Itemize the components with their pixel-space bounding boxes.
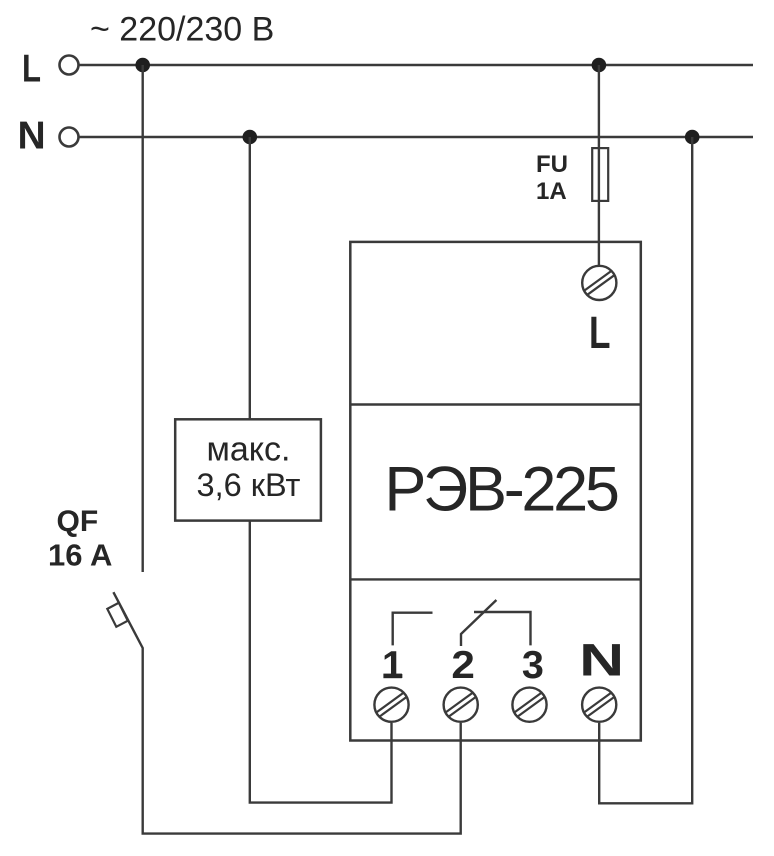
svg-text:L: L xyxy=(589,307,611,358)
relay contact: common blade from terminal 2 xyxy=(461,600,496,646)
node junction on N line (to load box) xyxy=(243,130,258,145)
svg-text:N: N xyxy=(18,115,46,158)
screw terminal 2 xyxy=(444,688,478,722)
svg-text:РЭВ-225: РЭВ-225 xyxy=(384,455,618,525)
node junction on L line (to fuse FU) xyxy=(592,58,607,73)
node junction on L line (to QF) xyxy=(135,58,150,73)
svg-text:~ 220/230 В: ~ 220/230 В xyxy=(90,11,274,49)
wire from N line down to load box xyxy=(249,137,251,419)
device divider upper xyxy=(350,403,641,405)
svg-text:16 A: 16 A xyxy=(48,538,112,573)
breaker QF blade and wire to terminal 2 xyxy=(113,592,460,833)
relay contact: bracket to terminal 3 xyxy=(474,612,531,645)
svg-text:N: N xyxy=(579,634,624,685)
device body РЭВ-225 xyxy=(350,242,641,741)
wire L line xyxy=(79,64,753,66)
device divider lower xyxy=(350,578,641,580)
wire from L line through fuse to terminal L xyxy=(598,65,600,265)
svg-text:QF: QF xyxy=(57,505,99,538)
screw terminal L on device xyxy=(582,266,616,300)
wire N line xyxy=(79,136,753,138)
svg-text:1A: 1A xyxy=(536,178,567,205)
relay contact: bracket from terminal 1 xyxy=(393,613,433,646)
svg-text:2: 2 xyxy=(451,644,475,687)
load box макс. 3,6 кВт xyxy=(175,419,321,520)
fuse FU 1A xyxy=(592,148,608,201)
svg-text:3: 3 xyxy=(522,644,544,687)
terminal circle L input xyxy=(60,56,79,75)
breaker QF square xyxy=(107,603,128,627)
terminal circle N input xyxy=(60,128,79,147)
svg-text:FU: FU xyxy=(536,151,568,178)
svg-text:макс.: макс. xyxy=(207,431,291,469)
screw terminal N xyxy=(582,688,616,722)
wire from load box down to terminal 1 xyxy=(250,521,392,803)
svg-text:3,6 кВт: 3,6 кВт xyxy=(197,467,301,503)
svg-text:L: L xyxy=(22,47,41,90)
screw terminal 1 xyxy=(374,688,408,722)
wire from N line down and to terminal N xyxy=(599,137,692,803)
svg-text:1: 1 xyxy=(382,644,403,687)
node junction on N line (to terminal N) xyxy=(685,130,700,145)
screw terminal 3 xyxy=(512,688,546,722)
wire from L line down to QF breaker xyxy=(141,65,143,572)
